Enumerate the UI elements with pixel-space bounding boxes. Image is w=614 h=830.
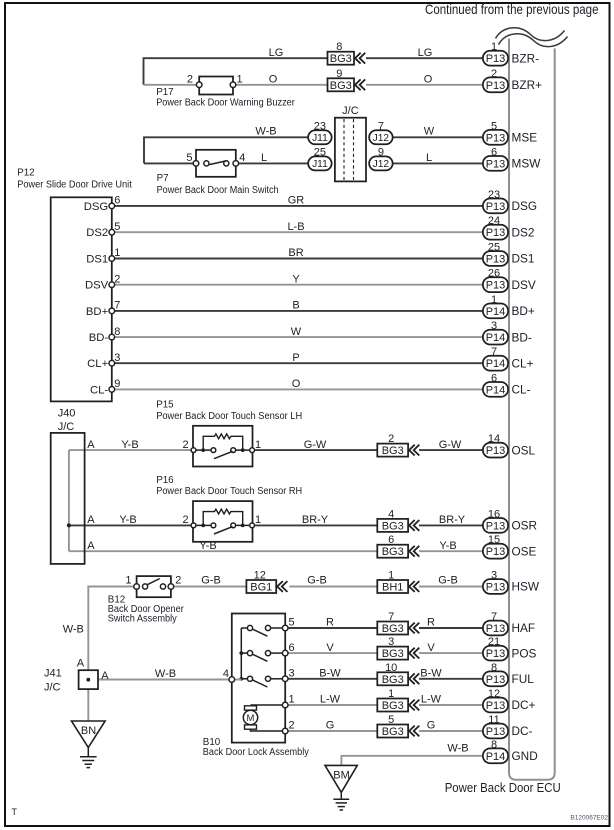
wire W-B ground to P14 GND [341,756,483,766]
svg-text:P14: P14 [486,306,506,318]
connector P13 pin 15 OSE [483,534,537,558]
switch B12 Back Door Opener Switch Assembly [134,576,174,597]
wire W BD- from P12 to oval [115,336,483,338]
svg-text:3: 3 [491,570,497,582]
svg-text:P13: P13 [486,520,506,532]
svg-text:P: P [292,352,299,364]
svg-text:DSG: DSG [512,199,538,213]
svg-text:P13: P13 [486,674,506,686]
touch sensor P16 Power Back Door Touch Sensor RH [191,501,254,542]
wire R B10 pin 5 to BG3 [288,627,377,629]
svg-text:G: G [427,720,436,732]
switch inside B10 row pin 5 [241,625,282,636]
resistor inside P15 [203,434,243,450]
svg-text:O: O [292,378,301,390]
svg-text:DS2: DS2 [86,227,108,239]
pin 7 of P12 (BD+) [109,308,115,314]
connector BG1 pin 12 [246,570,287,594]
connector BG3 pin 2 [377,433,419,457]
svg-text:Power Back Door ECU: Power Back Door ECU [445,780,561,795]
svg-text:BG3: BG3 [382,520,404,532]
svg-text:HAF: HAF [512,621,536,635]
wire B BD+ from P12 to oval [115,310,483,312]
svg-text:5: 5 [186,152,192,164]
wire Y-B row OSL from J40 to sensor P15 [69,449,191,451]
wire V B10 pin 6 to BG3 [288,652,377,654]
svg-text:G-B: G-B [201,575,221,587]
wire LG BG3 to P13 BZR- [366,57,483,59]
svg-text:2: 2 [182,439,188,451]
svg-text:W-B: W-B [155,668,176,680]
svg-text:V: V [326,642,334,654]
svg-text:P13: P13 [486,648,506,660]
svg-text:24: 24 [488,215,500,227]
svg-text:B-W: B-W [319,668,341,680]
wire L-B DS2 from P12 to oval [115,231,483,233]
svg-text:7: 7 [491,346,497,358]
svg-text:3: 3 [289,668,295,680]
switch inside B10 row pin 3 [241,676,282,687]
svg-text:W-B: W-B [63,623,84,635]
wire G-B BG1 to BH1 [289,586,377,588]
pin 2 of P12 (DSV) [109,282,115,288]
svg-text:GND: GND [512,749,538,763]
svg-text:J/C: J/C [44,681,61,693]
junction dots inside P16 [201,524,205,528]
svg-text:Power Back Door Touch Sensor R: Power Back Door Touch Sensor RH [156,486,302,497]
connector BG3 pin 3 (POS row) [377,636,419,660]
connector J12 pin 9 [369,146,393,170]
svg-text:6: 6 [491,146,497,158]
svg-text:7: 7 [388,611,394,623]
svg-text:BG3: BG3 [382,674,404,686]
svg-text:LG: LG [418,47,433,59]
svg-text:BZR+: BZR+ [512,78,543,92]
wire G-W sensor P15 to BG3 [255,449,378,451]
svg-text:CL+: CL+ [87,358,108,370]
connector P13 pin 7 HAF [483,611,535,635]
junction connector J40 box [51,433,85,564]
connector P13 pin 2 BZR+ [483,68,542,92]
svg-text:Power Slide Door Drive Unit: Power Slide Door Drive Unit [17,179,132,190]
connector P13 pin 1 BZR- [483,41,539,65]
svg-text:9: 9 [336,68,342,80]
svg-text:P13: P13 [486,254,506,266]
connector BG3 pin 6 [377,534,419,558]
svg-text:G-W: G-W [439,439,462,451]
wire BR-Y BG3 to P13 OSR [419,524,483,526]
svg-text:A: A [101,670,109,682]
wire O buzzer pin1 to BG3 [236,84,328,86]
wire pin4 entry inside B10 [229,679,241,681]
svg-text:P16: P16 [156,475,174,486]
svg-text:2: 2 [491,68,497,80]
connector BG3 pin 1 (DC+ row) [377,688,419,712]
connector P13 pin 24 DS2 [483,215,535,239]
svg-text:P13: P13 [486,80,506,92]
wire O buzzer bottom-left segment [144,84,197,86]
resistor inside P16 [203,509,243,525]
connector P13 pin 23 DSG [483,189,537,213]
wire GR DSG from P12 to oval [115,205,483,207]
svg-text:4: 4 [388,508,394,520]
svg-text:MSW: MSW [512,157,542,171]
svg-text:26: 26 [488,268,500,280]
connector J11 pin 23 [308,120,332,144]
svg-text:DS1: DS1 [512,252,535,266]
svg-text:2: 2 [289,720,295,732]
svg-text:J11: J11 [312,159,328,170]
wire P CL+ from P12 to oval [115,362,483,364]
svg-text:P13: P13 [486,726,506,738]
pin 3 of B10 (FUL row) [282,676,288,682]
svg-text:Power Back Door Main Switch: Power Back Door Main Switch [157,185,279,196]
svg-text:BN: BN [81,725,96,737]
svg-text:P13: P13 [486,201,506,213]
svg-text:8: 8 [491,739,497,751]
svg-text:9: 9 [378,146,384,158]
svg-text:1: 1 [491,41,497,53]
svg-text:DC+: DC+ [512,698,536,712]
wire BR-Y sensor P16 to BG3 [255,524,378,526]
svg-text:DS1: DS1 [86,254,108,266]
wire R BG3 to P13 HAF [419,627,483,629]
pin 4 of B10 [229,677,235,683]
svg-text:7: 7 [491,611,497,623]
connector BG3 pin 4 [377,508,419,532]
svg-text:G-B: G-B [307,575,327,587]
connector P13 pin 25 DS1 [483,242,535,266]
svg-text:15: 15 [488,534,500,546]
svg-text:P13: P13 [486,623,506,635]
connector P13 pin 12 DC+ [483,688,536,712]
svg-text:O: O [269,74,278,86]
svg-text:3: 3 [114,352,120,364]
connector P13 pin 26 DSV [483,268,536,292]
wire L-W B10 pin 1 to BG3 [288,704,377,706]
svg-text:8: 8 [491,662,497,674]
svg-text:P13: P13 [486,53,506,65]
svg-text:O: O [424,74,433,86]
wire LG buzzer loop left/top segment [144,58,328,85]
svg-text:14: 14 [488,433,500,445]
wire L-W BG3 to P13 DC+ [419,704,483,706]
svg-text:6: 6 [491,372,497,384]
pin 5 of P12 (DS2) [109,229,115,235]
svg-text:BZR-: BZR- [512,51,540,65]
svg-text:W: W [291,326,302,338]
svg-text:23: 23 [488,189,500,201]
svg-text:BD+: BD+ [512,304,535,318]
wire Y-B BG3 to P13 OSE [419,550,483,552]
svg-text:J11: J11 [312,133,328,144]
svg-text:A: A [77,657,85,669]
junction dots inside P15 [201,448,205,452]
svg-text:R: R [326,617,334,629]
connector P13 pin 14 OSL [483,433,536,457]
svg-text:P14: P14 [486,332,506,344]
svg-text:G-W: G-W [304,439,327,451]
svg-text:4: 4 [239,152,245,164]
connector P13 pin 16 OSR [483,508,537,532]
junction dot J40 row OSR [67,523,71,527]
svg-text:J/C: J/C [58,421,75,433]
junction dot B10 row 3 [239,677,243,681]
svg-text:12: 12 [254,570,266,582]
wire L main switch bottom-left segment [144,162,193,164]
wire W J12 to P13 MSE [392,136,483,138]
svg-text:BD-: BD- [512,330,532,344]
svg-text:BG3: BG3 [382,546,404,558]
svg-text:B: B [292,300,299,312]
wire V BG3 to P13 POS [419,652,483,654]
svg-text:J12: J12 [373,133,390,144]
connector P13 pin 5 MSE [483,120,537,144]
connector J11 pin 25 [308,146,332,170]
svg-text:L: L [261,152,267,164]
buzzer P17 Power Back Door Warning Buzzer [196,77,235,95]
connector P14 pin 6 CL- [483,372,531,396]
connector J12 pin 7 [369,120,393,144]
connector BG3 pin 10 (FUL row) [377,662,419,686]
svg-text:OSE: OSE [512,544,537,558]
svg-text:MSE: MSE [512,131,538,145]
ground BN [72,721,106,768]
pin 1 of P12 (DS1) [109,256,115,262]
lock assembly B10 Back Door Lock Assembly box [232,614,285,743]
svg-text:OSL: OSL [512,443,536,457]
svg-text:BG3: BG3 [382,700,404,712]
svg-text:12: 12 [488,688,500,700]
svg-text:W: W [424,126,435,138]
continuation wave (torn page mark) [496,28,565,41]
svg-text:POS: POS [512,646,537,660]
svg-text:P14: P14 [486,358,506,370]
connector P14 pin 8 GND [483,739,538,763]
svg-text:OSR: OSR [512,519,538,533]
connector P13 pin 3 HSW [483,570,540,594]
svg-text:25: 25 [314,146,326,158]
svg-text:Y: Y [292,273,300,285]
svg-text:Continued from the previous pa: Continued from the previous page [425,1,599,17]
svg-text:DC-: DC- [512,724,533,738]
svg-text:P13: P13 [486,582,506,594]
svg-text:Power Back Door Warning Buzzer: Power Back Door Warning Buzzer [156,97,295,108]
junction connector J41 box [79,670,98,689]
svg-text:1: 1 [289,694,295,706]
svg-text:5: 5 [388,714,394,726]
svg-text:5: 5 [491,120,497,132]
svg-text:P13: P13 [486,700,506,712]
svg-text:Switch Assembly: Switch Assembly [108,614,177,625]
svg-text:1: 1 [388,570,394,582]
svg-text:2: 2 [187,74,193,86]
svg-text:J41: J41 [44,667,62,679]
svg-text:CL-: CL- [512,383,531,397]
connector P14 pin 1 BD+ [483,294,535,318]
svg-text:T: T [12,807,18,817]
svg-text:L-W: L-W [320,694,341,706]
svg-text:16: 16 [488,508,500,520]
pin 6 of P12 (DSG) [109,203,115,209]
svg-text:6: 6 [114,195,120,207]
svg-text:V: V [427,642,435,654]
wire O BG3 to P13 BZR+ [366,84,483,86]
svg-text:3: 3 [388,636,394,648]
wire from B12 pin1 down to J41 (W-B) [88,587,134,671]
svg-text:1: 1 [125,575,131,587]
svg-text:1: 1 [491,294,497,306]
switch P7 Power Back Door Main Switch [193,150,238,177]
pin 8 of P12 (BD-) [109,334,115,340]
connector BG3 pin 8 [328,41,366,65]
svg-text:2: 2 [175,575,181,587]
pin 1 of B10 (DC+ row) [282,702,288,708]
svg-text:HSW: HSW [512,580,540,594]
svg-text:Y-B: Y-B [121,439,138,451]
wire B-W B10 pin 3 to BG3 [288,678,377,680]
connector P14 pin 7 CL+ [483,346,534,370]
svg-text:21: 21 [488,636,500,648]
wire Y DSV from P12 to oval [115,284,483,286]
svg-text:1: 1 [255,439,261,451]
connector BG3 pin 7 (HAF row) [377,611,419,635]
svg-text:FUL: FUL [512,672,535,686]
svg-text:W-B: W-B [255,126,276,138]
svg-text:10: 10 [385,662,397,674]
connector P13 pin 11 DC- [483,714,533,738]
wire W-B main switch loop left/top segment [144,137,308,163]
svg-text:1: 1 [255,514,261,526]
motor M inside B10 [243,705,282,731]
svg-text:11: 11 [488,714,499,726]
svg-text:BR: BR [288,247,303,259]
svg-text:P13: P13 [486,227,506,239]
svg-text:W-B: W-B [447,742,468,754]
internal bus inside B10 [240,628,242,679]
svg-text:BD-: BD- [89,332,109,344]
wire G B10 pin 2 to BG3 [288,730,377,732]
svg-text:BG3: BG3 [382,623,404,635]
pin 2 of B10 (DC- row) [282,728,288,734]
svg-text:BG3: BG3 [382,445,404,457]
svg-text:P13: P13 [486,132,506,144]
svg-text:LG: LG [269,47,284,59]
svg-text:L-W: L-W [421,694,442,706]
svg-text:6: 6 [388,534,394,546]
svg-text:R: R [427,617,435,629]
svg-text:4: 4 [223,668,229,680]
svg-text:B-W: B-W [420,668,442,680]
svg-text:DSV: DSV [85,280,109,292]
svg-text:GR: GR [288,195,305,207]
connector BG3 pin 5 (DC- row) [377,714,419,738]
svg-text:9: 9 [114,378,120,390]
svg-text:BH1: BH1 [382,582,403,594]
svg-text:L-B: L-B [287,221,304,233]
svg-text:B120067E02: B120067E02 [570,815,608,822]
svg-text:BG1: BG1 [250,582,272,594]
svg-text:Power Back Door Touch Sensor L: Power Back Door Touch Sensor LH [156,411,302,422]
connector BG3 pin 9 [328,68,366,92]
svg-text:DSV: DSV [512,278,536,292]
svg-text:2: 2 [388,433,394,445]
ECU outline Power Back Door ECU [509,39,555,780]
svg-text:DSG: DSG [84,201,108,213]
pin 9 of P12 (CL-) [109,387,115,393]
svg-text:A: A [87,439,95,451]
wire O CL- from P12 to oval [115,388,483,390]
wire B-W BG3 to P13 FUL [419,678,483,680]
svg-text:1: 1 [388,688,394,700]
wire G BG3 to P13 DC- [419,730,483,732]
wire Y-B row OSE from J40 to BG3 [69,550,377,552]
ground BM [325,765,357,810]
svg-text:P13: P13 [486,280,506,292]
wire W-B J41 to B10 pin 4 [98,679,229,681]
svg-text:BG3: BG3 [330,53,352,65]
wire L J12 to P13 MSW [392,162,483,164]
svg-text:DS2: DS2 [512,225,535,239]
connector BH1 pin 1 [377,570,419,594]
svg-text:CL+: CL+ [512,356,534,370]
connector P13 pin 6 MSW [483,146,541,170]
svg-text:J/C: J/C [342,105,359,117]
svg-text:1: 1 [237,74,243,86]
svg-text:P7: P7 [157,173,169,184]
svg-text:5: 5 [289,617,295,629]
svg-text:BD+: BD+ [86,306,109,318]
svg-text:7: 7 [378,120,384,132]
svg-text:P13: P13 [486,158,506,170]
switch inside B10 row pin 6 [241,651,282,662]
svg-text:Y-B: Y-B [439,540,456,552]
svg-text:G-B: G-B [438,575,458,587]
svg-text:G: G [326,720,335,732]
svg-text:1: 1 [114,247,120,259]
svg-text:Back Door Lock Assembly: Back Door Lock Assembly [203,747,309,758]
junction dot B10 row 6 [239,651,243,655]
svg-text:P14: P14 [486,384,506,396]
svg-text:8: 8 [114,326,120,338]
svg-text:A: A [87,514,95,526]
connector P14 pin 3 BD- [483,320,532,344]
wire G-B BH1 to P13 HSW [419,586,483,588]
junction connector J/C block [335,118,366,182]
wire G-B B12 pin2 to BG1 [174,586,246,588]
svg-text:BG3: BG3 [330,80,352,92]
svg-text:BG3: BG3 [382,726,404,738]
svg-text:P14: P14 [486,751,506,763]
svg-text:BM: BM [333,769,350,781]
wire BR DS1 from P12 to oval [115,258,483,260]
svg-text:J12: J12 [373,159,390,170]
svg-text:BR-Y: BR-Y [302,514,329,526]
wire J41 down to ground BN [87,689,89,721]
pin 3 of P12 (CL+) [109,360,115,366]
wire Y-B row OSR from J40 to sensor P16 [69,524,191,526]
touch sensor P15 Power Back Door Touch Sensor LH [191,426,254,467]
svg-text:3: 3 [491,320,497,332]
connector P13 pin 21 POS [483,636,537,660]
svg-text:Y-B: Y-B [119,514,136,526]
pin 5 of B10 (HAF row) [282,625,288,631]
svg-text:BG3: BG3 [382,648,404,660]
svg-text:BR-Y: BR-Y [439,514,466,526]
svg-text:M: M [247,713,255,724]
svg-text:2: 2 [114,273,120,285]
svg-text:P13: P13 [486,546,506,558]
